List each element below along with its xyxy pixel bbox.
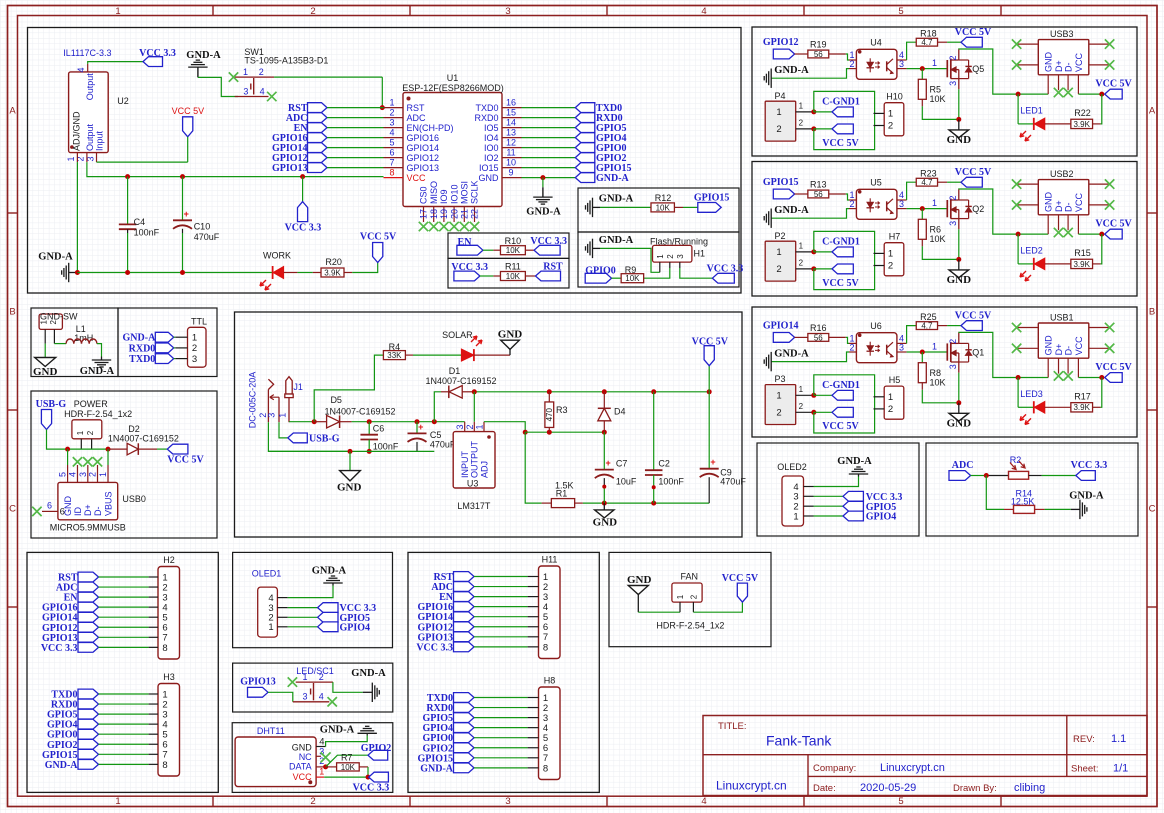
svg-text:GND-SW: GND-SW <box>40 311 78 321</box>
svg-text:R3: R3 <box>556 405 568 415</box>
svg-text:VCC 5V: VCC 5V <box>360 232 397 243</box>
wire GPIO0 to R9 <box>612 277 622 279</box>
svg-text:1: 1 <box>268 622 273 633</box>
svg-text:MOSI: MOSI <box>460 181 470 204</box>
power flag VCC 5V (P2) <box>814 264 860 289</box>
svg-text:20: 20 <box>449 209 459 219</box>
svg-text:1.1: 1.1 <box>1111 733 1126 745</box>
svg-text:CS0: CS0 <box>419 186 429 204</box>
net label ADC (H11) <box>431 582 474 593</box>
svg-text:1: 1 <box>389 97 394 107</box>
header H10 <box>874 92 904 136</box>
svg-text:VCC 3.3: VCC 3.3 <box>353 783 390 794</box>
svg-text:A: A <box>9 106 16 117</box>
junction 3.3V rail at C10 <box>180 174 185 179</box>
net label EN (U1 left) <box>294 123 327 134</box>
diode D5 1N4007-C169152 <box>314 395 395 428</box>
wire Q2 drain to USB2 GND pin <box>959 189 1048 234</box>
header H8 <box>528 676 560 780</box>
optocoupler U6 <box>849 321 907 363</box>
svg-text:2: 2 <box>849 342 854 352</box>
ground GND-A (switch) <box>351 668 386 702</box>
wire OLED2 to VCC 3.3 <box>814 495 844 497</box>
svg-text:R7: R7 <box>341 752 353 762</box>
ground GND (solar) <box>498 328 523 355</box>
wire Q1 source down <box>958 373 960 403</box>
no-connect X on U1 pin 18 <box>429 222 438 231</box>
net label GPIO0 (U1 right) <box>575 143 626 154</box>
svg-text:470uF: 470uF <box>720 477 746 487</box>
svg-text:10uF: 10uF <box>616 477 637 487</box>
wire U2 pin2 to 3.3V rail <box>87 162 384 177</box>
no-connect X USB3 shell right2 <box>1105 60 1114 69</box>
wire ADC to divider <box>971 475 1009 477</box>
wire Q2 source down <box>958 229 960 259</box>
wire GPIO15 to H8 pin7 <box>474 757 528 759</box>
svg-text:4: 4 <box>76 67 86 72</box>
svg-text:2: 2 <box>799 402 804 411</box>
svg-text:3: 3 <box>192 354 197 365</box>
wire D2 to VCC 5V <box>157 448 167 450</box>
svg-text:ADC: ADC <box>407 113 427 123</box>
net label GND-A (H3) <box>45 759 99 770</box>
wire U4 pin3 to Q5 gate <box>907 58 947 69</box>
wire U1 GND pin to GND-A <box>522 177 576 179</box>
no-connect X USB2 shell left1 <box>1012 179 1021 188</box>
rev text <box>1073 733 1126 745</box>
svg-text:GND-A: GND-A <box>186 50 221 61</box>
title text <box>718 721 832 749</box>
no-connect X on USB0 pin6 <box>32 507 41 516</box>
junction on RST wire <box>380 105 385 110</box>
net label RXD0 (H8) <box>426 703 474 714</box>
svg-text:Fank-Tank: Fank-Tank <box>766 733 832 749</box>
block frame: FAN header <box>609 552 771 646</box>
svg-text:GND: GND <box>593 516 618 528</box>
svg-text:3: 3 <box>455 424 465 429</box>
junction VCC 5V <box>1099 232 1104 237</box>
wire GPIO14 to R16 <box>795 336 808 338</box>
svg-text:3: 3 <box>948 221 958 226</box>
svg-text:GND-A: GND-A <box>526 207 561 218</box>
svg-text:2: 2 <box>888 261 893 272</box>
5V rail wire (solar out) <box>474 391 709 393</box>
svg-text:IO10: IO10 <box>449 184 459 204</box>
svg-text:GND-A: GND-A <box>123 333 157 344</box>
no-connect X on USB0 D+ <box>83 457 92 466</box>
net label EN (pullup) <box>457 237 483 255</box>
net label GPIO2 (U1 right) <box>575 153 626 164</box>
svg-text:+: + <box>418 422 423 432</box>
svg-text:2: 2 <box>465 424 475 429</box>
svg-text:IO0: IO0 <box>484 143 499 153</box>
no-connect X switch pin4 <box>328 697 337 706</box>
svg-text:4: 4 <box>319 692 324 702</box>
wire SW1 pin2 to U1 RST <box>274 77 382 108</box>
no-connect X USB3 D- <box>1063 88 1072 97</box>
diode D2 1N4007-C169152 <box>108 424 179 455</box>
USB connector USB2 <box>1017 169 1110 234</box>
wire ADC to H11 pin2 <box>474 586 528 588</box>
svg-text:Linuxcrypt.cn: Linuxcrypt.cn <box>716 779 787 793</box>
svg-text:3: 3 <box>948 81 958 86</box>
svg-text:GPIO4: GPIO4 <box>340 622 371 633</box>
svg-text:HDR-F-2.54_1x2: HDR-F-2.54_1x2 <box>656 620 724 630</box>
svg-text:R22: R22 <box>1074 108 1091 118</box>
resistor R4 33K <box>383 342 413 360</box>
svg-text:VCC 3.3: VCC 3.3 <box>707 263 744 274</box>
wire VCC 5V to U2 pin3 <box>97 137 188 162</box>
svg-text:GND: GND <box>292 742 313 752</box>
net label EN (H2) <box>64 592 99 603</box>
svg-text:GND: GND <box>33 366 58 378</box>
power flag VCC 5V (P4) <box>814 124 860 149</box>
svg-text:3.9K: 3.9K <box>1073 260 1090 269</box>
svg-text:3: 3 <box>948 364 958 369</box>
net label GND-A (H8) <box>420 763 474 774</box>
wire GPIO5 to H8 pin3 <box>474 717 528 719</box>
no-connect X USB2 shell right2 <box>1105 200 1114 209</box>
LED LED1 <box>1018 94 1071 141</box>
svg-text:R25: R25 <box>920 312 937 322</box>
ground GND-A (USB3 block) <box>764 65 809 88</box>
ground GND-A (OLED2) <box>837 456 872 477</box>
no-connect X on U1 pin 17 <box>419 222 428 231</box>
svg-text:1: 1 <box>799 385 804 394</box>
svg-text:4: 4 <box>260 86 265 96</box>
junction led branch <box>1016 92 1021 97</box>
svg-text:1: 1 <box>278 413 288 418</box>
svg-text:D-: D- <box>1064 203 1074 213</box>
junction C7 bottom <box>602 501 607 506</box>
svg-text:C5: C5 <box>430 430 442 440</box>
svg-text:TXD0: TXD0 <box>475 103 498 113</box>
no-connect X on U1 pin 20 <box>449 222 458 231</box>
power flag VCC 5V (USB3) <box>1095 78 1132 99</box>
wire OLED2 pin4 to GND-A <box>814 477 859 487</box>
svg-text:USB-G: USB-G <box>36 399 67 410</box>
svg-text:C2: C2 <box>658 458 670 468</box>
no-connect X USB3 shell right1 <box>1105 39 1114 48</box>
no-connect X USB2 D- <box>1063 228 1072 237</box>
svg-text:2: 2 <box>799 259 804 268</box>
svg-text:VCC 3.3: VCC 3.3 <box>285 223 322 234</box>
header H5 <box>874 375 904 419</box>
resistor R7 10K <box>326 752 368 772</box>
net label GPIO12 (H11) <box>417 622 474 633</box>
power flag VCC 5V (USB2 pullup) <box>955 167 992 187</box>
LED LED3 <box>1018 378 1071 425</box>
junction rail at USB0 GND <box>65 447 70 452</box>
net label VCC 3.3 (RST pullup) <box>451 262 488 281</box>
ground GND-A (bottom rail) <box>38 252 77 283</box>
wire R19 to U4 pin1 <box>846 54 849 60</box>
svg-text:1: 1 <box>932 198 937 208</box>
svg-text:SOLAR: SOLAR <box>442 330 473 340</box>
header H3 <box>149 672 180 776</box>
svg-text:3: 3 <box>676 254 685 259</box>
net label GPIO16 (H2) <box>42 602 99 613</box>
no-connect X USB1 shell left2 <box>1012 344 1021 353</box>
switch LED/SC1 <box>293 666 334 702</box>
svg-text:10K: 10K <box>930 377 946 387</box>
svg-text:EN(CH-PD): EN(CH-PD) <box>407 123 454 133</box>
wire GPIO12 to H11 pin6 <box>474 626 528 628</box>
net label RST (pullup) <box>536 262 564 281</box>
svg-text:TS-1095-A135B3-D1: TS-1095-A135B3-D1 <box>244 56 328 66</box>
ground GND (output) <box>593 503 618 528</box>
connector OLED2 <box>777 462 813 526</box>
net label GPIO5 (H3) <box>47 709 99 720</box>
svg-text:C: C <box>1149 504 1156 515</box>
svg-text:VCC 5V: VCC 5V <box>822 278 859 289</box>
svg-text:OLED2: OLED2 <box>777 462 807 472</box>
wire loop to H header <box>814 231 875 289</box>
net label GPIO5 (H8) <box>422 713 474 724</box>
no-connect X on U1 pin 19 <box>439 222 448 231</box>
net label GPIO15 (pulldown) <box>694 192 730 212</box>
wire DHT11 GND to GND-A <box>326 736 368 747</box>
svg-text:1: 1 <box>115 796 120 807</box>
svg-text:ID: ID <box>73 506 83 516</box>
junction gate / R6 <box>920 206 925 211</box>
wire OLED1 to GPIO5 <box>288 616 318 618</box>
svg-text:GPIO12: GPIO12 <box>407 153 440 163</box>
svg-text:GPIO15: GPIO15 <box>694 192 730 203</box>
svg-text:GND: GND <box>1044 52 1054 73</box>
net label C-GND1 <box>814 97 860 117</box>
svg-text:14: 14 <box>506 117 516 127</box>
svg-text:VBUS: VBUS <box>103 491 113 516</box>
junction C2 bottom <box>651 501 656 506</box>
net label RXD0 (H3) <box>51 699 99 710</box>
net label GPIO13 (H11) <box>417 632 474 643</box>
block frame: ADC divider <box>926 443 1138 536</box>
wire GPIO15 to H3 pin7 <box>99 753 149 755</box>
no-connect X USB1 D- <box>1063 371 1072 380</box>
svg-text:GPIO13: GPIO13 <box>407 163 440 173</box>
connector GND-SW <box>39 311 78 343</box>
svg-text:RXD0: RXD0 <box>129 343 156 354</box>
wire GPIO12 to U1 <box>327 157 384 159</box>
resistor R12 10K <box>651 193 683 213</box>
svg-text:4: 4 <box>389 127 394 137</box>
svg-text:2: 2 <box>389 107 394 117</box>
svg-text:VCC 5V: VCC 5V <box>722 573 759 584</box>
net label VCC 3.3 (flash) <box>707 263 744 283</box>
svg-text:VCC 5V: VCC 5V <box>822 138 859 149</box>
wire USB0 GND to rail <box>67 449 69 465</box>
wire GPIO14 to H11 pin5 <box>474 616 528 618</box>
junction P3 pin2 <box>811 410 816 415</box>
ground GND-A (top, to SW1) <box>186 50 221 77</box>
wire U1 to GPIO5 (right) <box>522 127 576 129</box>
svg-text:GND-A: GND-A <box>774 348 809 359</box>
no-connect X USB1 D+ <box>1054 371 1063 380</box>
net label GPIO15 (H8) <box>417 753 474 764</box>
wire RXD0 to TTL <box>174 347 176 349</box>
svg-text:C-GND1: C-GND1 <box>822 97 860 108</box>
wire OLED1 to GPIO4 <box>288 626 318 628</box>
block frame: RST pullup <box>448 258 569 288</box>
svg-text:Output: Output <box>85 123 95 151</box>
svg-text:3: 3 <box>899 342 904 352</box>
no-connect X USB1 shell right1 <box>1105 323 1114 332</box>
block frame: LED/SC1 switch <box>233 663 393 712</box>
svg-text:LM317T: LM317T <box>457 501 491 511</box>
net label GPIO5 (OLED2) <box>843 501 896 513</box>
block frame: EN pullup <box>448 233 569 258</box>
net label GPIO13 (H2) <box>42 632 99 643</box>
no-connect X USB1 shell left1 <box>1012 323 1021 332</box>
svg-text:1: 1 <box>888 109 893 120</box>
svg-text:3: 3 <box>505 796 510 807</box>
svg-text:VCC 3.3: VCC 3.3 <box>416 642 453 653</box>
net label USB-G (power flag) <box>36 399 67 429</box>
junction D4 bottom / C7 top <box>602 430 607 435</box>
net label GPIO4 (OLED2) <box>843 511 896 522</box>
svg-text:VCC 3.3: VCC 3.3 <box>530 236 567 247</box>
svg-text:GND: GND <box>627 574 652 586</box>
junction R3 bottom <box>547 430 552 435</box>
bottom rail wire (output gnd) <box>583 502 709 504</box>
resistor R15 3.9K <box>1071 248 1101 269</box>
svg-text:11: 11 <box>506 147 515 157</box>
ground GND-A (DHT11) <box>320 724 377 735</box>
wire GND-SW pin2 to L1 <box>54 343 66 345</box>
svg-text:470uF: 470uF <box>430 440 456 450</box>
svg-text:8: 8 <box>389 167 394 177</box>
block frame: TTL header <box>118 308 217 377</box>
no-connect X USB2 shell right1 <box>1105 179 1114 188</box>
power flag VCC 5V (usb input) <box>167 444 204 465</box>
svg-text:P4: P4 <box>774 91 785 101</box>
MOSFET Q1 <box>947 333 984 373</box>
net label C-GND1 <box>814 237 860 257</box>
capacitor C4 100nF <box>119 177 160 273</box>
svg-text:10K: 10K <box>930 94 946 104</box>
wire U4 pin4 to R18 <box>907 42 917 60</box>
no-connect X on U1 pin 22 <box>470 222 479 231</box>
power flag VCC 5V (solar out) <box>692 337 729 392</box>
net label VCC 3.3 (H11) <box>416 642 474 653</box>
text POWER HDR-F-2.54_1x2 <box>64 399 132 419</box>
net label VCC 3.3 (EN pullup) <box>530 236 567 255</box>
svg-text:ESP-12F(ESP8266MOD): ESP-12F(ESP8266MOD) <box>402 83 504 93</box>
svg-text:GND: GND <box>947 417 972 429</box>
svg-text:6: 6 <box>389 147 394 157</box>
USB connector USB3 <box>1017 29 1110 94</box>
svg-text:1: 1 <box>799 102 804 111</box>
svg-text:100nF: 100nF <box>134 228 160 238</box>
sheet text <box>1071 763 1128 775</box>
net label GPIO4 (OLED1) <box>318 622 370 634</box>
wire EN to R10 <box>483 249 494 251</box>
block frame: flash/running jumper <box>578 232 739 287</box>
junction at C5 <box>415 419 420 424</box>
wire GPIO0 to H3 pin5 <box>99 733 149 735</box>
svg-text:19: 19 <box>439 209 449 219</box>
wire GPIO2 to H3 pin6 <box>99 743 149 745</box>
svg-text:3: 3 <box>899 199 904 209</box>
optocoupler U5 <box>849 178 907 220</box>
svg-text:U3: U3 <box>467 479 479 489</box>
header H2 <box>149 555 180 659</box>
junction ground rail at U2 pin1 <box>75 270 80 275</box>
svg-text:U5: U5 <box>870 178 882 188</box>
svg-text:VCC 5V: VCC 5V <box>955 27 992 38</box>
svg-text:ADJ: ADJ <box>479 461 489 478</box>
no-connect X USB3 D+ <box>1054 88 1063 97</box>
net label VCC 3.3 (OLED1) <box>318 603 377 615</box>
svg-text:2: 2 <box>310 796 315 807</box>
wire OLED1 pin4 to GND-A <box>288 586 333 598</box>
svg-text:R19: R19 <box>810 40 827 50</box>
svg-text:RST: RST <box>407 103 426 113</box>
svg-text:FAN: FAN <box>680 572 698 582</box>
svg-text:56: 56 <box>814 190 823 199</box>
svg-text:H5: H5 <box>889 375 901 385</box>
svg-text:1: 1 <box>66 156 76 161</box>
svg-text:2: 2 <box>88 472 98 477</box>
svg-text:21: 21 <box>460 209 470 219</box>
wire loop to H header <box>814 91 875 149</box>
junction adj node <box>523 430 528 435</box>
svg-text:R17: R17 <box>1074 391 1091 401</box>
resistor R20 3.9K <box>313 257 352 277</box>
wire GND-SW pin1 down <box>44 344 46 358</box>
capacitor C5 470uF <box>408 422 456 452</box>
junction VCC 5V <box>1099 375 1104 380</box>
svg-text:IO5: IO5 <box>484 123 499 133</box>
junction led branch <box>1016 375 1021 380</box>
block frame: power/MCU section <box>28 28 742 294</box>
svg-text:10K: 10K <box>341 763 356 772</box>
wire DATA to GPIO2 (diagonal) <box>326 755 368 767</box>
wire GPIO16 to U1 <box>327 137 384 139</box>
svg-text:4: 4 <box>701 6 706 17</box>
svg-text:1: 1 <box>98 472 108 477</box>
junction 3.3V rail at VCC 3.3 flag <box>300 174 305 179</box>
wire GPIO15 to R13 <box>795 193 808 195</box>
wire USB1 VCC to VCC 5V <box>1078 377 1101 379</box>
svg-text:470uF: 470uF <box>194 232 220 242</box>
svg-text:R10: R10 <box>505 236 522 246</box>
net label GPIO2 (H3) <box>47 739 99 750</box>
svg-text:R12: R12 <box>655 193 672 203</box>
svg-text:VCC 5V: VCC 5V <box>692 337 729 348</box>
net label VCC 3.3 (DHT11) <box>353 772 390 793</box>
svg-text:VCC: VCC <box>1074 336 1084 356</box>
junction ADC node <box>984 473 989 478</box>
wire USB0 VBUS to rail <box>107 449 109 465</box>
junction ground rail at C10 <box>180 270 185 275</box>
svg-text:10K: 10K <box>506 246 521 255</box>
wire R13 to U5 pin1 <box>846 194 849 200</box>
svg-text:470: 470 <box>545 407 554 421</box>
wire EN to U1 <box>327 127 384 129</box>
svg-text:+: + <box>605 458 610 468</box>
wire D5 to LM317 input <box>352 421 465 423</box>
no-connect X USB2 shell left2 <box>1012 200 1021 209</box>
logo text Linuxcrypt.cn <box>716 779 787 793</box>
svg-text:1: 1 <box>888 392 893 403</box>
svg-text:2: 2 <box>776 264 781 275</box>
net label ADC <box>949 460 973 480</box>
junction P4 pin2 <box>811 126 816 131</box>
junction at D1 branch <box>432 419 437 424</box>
net label GPIO13 (switch) <box>240 677 276 698</box>
